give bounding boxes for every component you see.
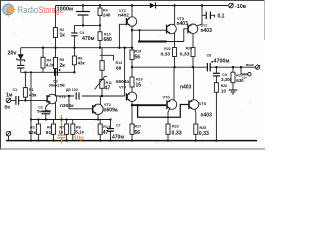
svg-text:R22: R22 <box>164 47 170 51</box>
svg-text:4,3к: 4,3к <box>46 63 55 68</box>
svg-text:0,1: 0,1 <box>218 13 225 19</box>
node R7 top <box>66 118 68 120</box>
svg-text:C7: C7 <box>116 124 121 128</box>
node VT7 rail <box>201 4 203 6</box>
svg-text:56: 56 <box>135 55 141 61</box>
wire y25 link <box>74 24 100 26</box>
label C8 4700m <box>207 54 230 65</box>
node R10 bus <box>99 47 101 49</box>
zener VD1 <box>17 48 25 65</box>
resistor R12 <box>100 48 104 80</box>
svg-text:Дб 100: Дб 100 <box>66 88 78 92</box>
label VT4 p604a <box>116 79 130 90</box>
svg-text:VTб: VTб <box>163 95 171 99</box>
wire bus drop to VT4 base <box>124 48 126 96</box>
watermark icon <box>0 2 17 19</box>
svg-text:47: 47 <box>105 85 111 91</box>
transistor VT3 <box>126 6 136 51</box>
resistor R6 91 <box>52 120 56 141</box>
terminal ground left <box>6 131 11 140</box>
label R8 5.1k <box>76 125 85 134</box>
wire R2 to bus <box>55 38 57 58</box>
svg-text:VT4: VT4 <box>119 86 127 90</box>
label R25 0.33 <box>199 126 209 137</box>
node R9 rail <box>99 4 101 6</box>
label R4 4.3k <box>46 59 55 68</box>
label R3 62k <box>29 125 37 135</box>
node C3 bottom <box>82 24 84 26</box>
label R5 2k <box>60 58 66 69</box>
wire y72 link <box>21 71 55 73</box>
label R16 15 <box>136 77 143 88</box>
capacitor C8 4700m <box>207 61 213 72</box>
node R14 ground <box>99 140 101 142</box>
transistor VT4 <box>126 92 136 105</box>
wire thick y41 <box>138 41 167 43</box>
wire C1 to VT1 base <box>19 99 47 101</box>
wire VT8 base Z <box>138 105 189 118</box>
resistor R3 <box>36 120 40 141</box>
wire top rail -10V <box>56 5 229 7</box>
node R6 ground <box>52 140 54 142</box>
node VT3 emitter y30 <box>131 29 133 31</box>
svg-text:1к: 1к <box>60 33 66 39</box>
wire output bus y68 <box>132 66 207 68</box>
svg-text:Radio: Radio <box>18 5 39 15</box>
resistor R23 0.33 <box>166 112 170 141</box>
capacitor C6 <box>74 92 82 99</box>
node VT2 base branch <box>68 95 70 97</box>
node R16 top <box>131 66 133 68</box>
svg-text:43к: 43к <box>78 61 86 66</box>
svg-text:43к: 43к <box>29 92 37 97</box>
svg-text:10p: 10p <box>74 136 85 142</box>
transistor VT5 <box>167 6 177 48</box>
svg-text:1000м: 1000м <box>57 7 74 13</box>
svg-text:5мx15В: 5мx15В <box>37 110 51 114</box>
svg-text:470м: 470м <box>112 135 124 141</box>
wire output line right <box>210 66 255 68</box>
resistor R5 2k <box>54 58 58 69</box>
transistor VT6 <box>167 67 177 112</box>
resistor R8 5.1k <box>71 120 75 141</box>
capacitor C5 0.1 <box>202 12 215 19</box>
node C7 top <box>109 118 111 120</box>
node x31 ground <box>30 140 32 142</box>
label VT8 p403 <box>199 102 212 118</box>
node VT3 rail <box>131 4 133 6</box>
transistor VT1 <box>47 94 57 104</box>
wire bus y119 <box>31 119 111 121</box>
label C9 3300 <box>221 73 233 82</box>
node bus drop <box>123 47 125 49</box>
svg-text:68: 68 <box>116 66 122 72</box>
node C10 bus <box>60 118 62 120</box>
node VT1 collector y72 <box>54 71 56 73</box>
label R10 680 <box>104 32 113 43</box>
svg-text:C1: C1 <box>13 88 18 92</box>
node VT5 rail <box>173 4 175 6</box>
label R12 43k <box>78 57 86 66</box>
resistor R26 10 <box>214 83 218 141</box>
svg-text:20v: 20v <box>8 51 17 57</box>
label R24 0.33 <box>180 47 192 58</box>
node C9 bus <box>215 66 217 68</box>
node feedback bus <box>240 66 242 68</box>
svg-text:R17: R17 <box>135 125 142 129</box>
svg-text:R1: R1 <box>29 88 34 92</box>
wire stub y55 <box>100 55 114 60</box>
resistor R9 240 <box>98 6 102 26</box>
label feedback tiny <box>242 73 248 80</box>
label R1 43k <box>29 88 37 97</box>
svg-text:R23: R23 <box>172 125 179 129</box>
wire bottom ground rail <box>6 140 257 142</box>
wire thin y41 extension <box>167 41 184 43</box>
svg-text:п403: п403 <box>180 85 192 91</box>
svg-text:R24: R24 <box>186 47 192 51</box>
wire VT7 collector <box>197 6 203 27</box>
svg-text:VT8: VT8 <box>199 102 206 106</box>
node R22 bus <box>173 66 175 68</box>
svg-text:VT2: VT2 <box>104 103 111 107</box>
label R27 630 <box>236 74 244 83</box>
label R22 0.33 <box>161 47 171 57</box>
svg-text:VT3: VT3 <box>119 9 126 13</box>
label C7 470m <box>112 124 124 141</box>
resistor R10 680 <box>98 25 102 47</box>
node R24 bus <box>192 66 194 68</box>
svg-text:0,33: 0,33 <box>161 52 171 58</box>
label C1 1m <box>6 88 17 98</box>
terminal -10V <box>229 3 234 8</box>
wire input to C1 <box>11 99 16 101</box>
node x139 <box>138 29 140 31</box>
label R9 240 <box>103 8 111 17</box>
wire 20v bus y48 <box>21 47 132 49</box>
node C7 ground <box>109 140 111 142</box>
svg-text:R2: R2 <box>60 28 65 32</box>
svg-text:1м: 1м <box>6 92 13 98</box>
svg-text:п403: п403 <box>201 113 213 119</box>
svg-text:62к: 62к <box>29 130 37 135</box>
node bus20v-x52 <box>54 47 56 49</box>
wire VT4 emitter down <box>131 105 133 124</box>
wire VT3 base drop <box>119 24 126 47</box>
svg-text:10: 10 <box>221 88 226 93</box>
svg-text:вых: вых <box>246 63 255 67</box>
border frame <box>0 0 265 150</box>
svg-text:Вх: Вх <box>5 104 11 109</box>
transistor VT8 <box>189 67 199 112</box>
svg-text:R10: R10 <box>104 32 111 36</box>
node VT4 emitter <box>131 104 133 106</box>
potentiometer R11 47 <box>95 77 107 97</box>
label R13 68 <box>116 61 123 72</box>
node base drop bus <box>118 47 120 49</box>
svg-text:15: 15 <box>136 82 142 88</box>
capacitor C10 10p orange highlight <box>58 115 66 144</box>
diode D1 on rail <box>150 3 156 9</box>
label C3 30mx15V <box>49 79 65 87</box>
svg-text:R6: R6 <box>47 125 52 129</box>
label R2 1k <box>60 28 66 39</box>
terminal input Vx <box>6 98 11 103</box>
resistor R4 4.3k <box>41 48 45 73</box>
resistor R14 47 bottom <box>98 120 102 141</box>
node R7 ground <box>66 140 68 142</box>
svg-text:30мx15В: 30мx15В <box>49 84 65 88</box>
wire thick y105 to VT6 base <box>132 104 166 106</box>
svg-text:5,1к: 5,1к <box>76 130 85 135</box>
transistor VT7 <box>188 24 198 48</box>
node R25 ground <box>195 140 197 142</box>
capacitor C7 470m <box>107 120 114 141</box>
svg-text:R25: R25 <box>200 126 207 130</box>
svg-text:R3: R3 <box>30 125 35 129</box>
svg-text:240: 240 <box>103 12 111 17</box>
wire R5 to VT1 collector <box>55 69 57 120</box>
resistor R16 15 <box>130 67 134 92</box>
svg-text:4700м: 4700м <box>214 59 230 65</box>
svg-text:56: 56 <box>135 130 141 136</box>
capacitor C2 <box>41 102 50 119</box>
node R12 bottom <box>73 71 75 73</box>
wire link x139 <box>139 30 141 41</box>
svg-text:C4: C4 <box>80 31 85 35</box>
label VT6 p403 <box>163 85 192 100</box>
capacitor below zener <box>17 65 24 72</box>
node C2 bus <box>45 118 47 120</box>
node VT1 collector / C6 line <box>54 95 56 97</box>
svg-text:0,33: 0,33 <box>180 51 190 57</box>
svg-text:R13: R13 <box>116 61 123 65</box>
terminal feedback <box>241 67 251 76</box>
node R1 input <box>24 99 26 101</box>
node C4 bus <box>73 47 75 49</box>
node R23 ground <box>167 140 169 142</box>
watermark text RadioStorage <box>18 5 64 15</box>
node x31 top <box>30 71 32 73</box>
capacitor C9 <box>213 67 220 83</box>
svg-text:п609а: п609а <box>104 108 118 114</box>
ground symbol R27 <box>229 90 238 94</box>
resistor R15 56 <box>130 50 134 67</box>
label VT2 <box>104 103 118 114</box>
label R6 91 <box>46 125 52 136</box>
wire left column from rail x52 <box>55 6 57 28</box>
svg-text:п604а: п604а <box>116 79 130 85</box>
svg-text:п403: п403 <box>177 21 189 27</box>
resistor R7 <box>65 120 69 141</box>
svg-text:470м: 470м <box>82 36 95 42</box>
node R27 bus <box>232 66 234 68</box>
node VT8 base link <box>136 104 138 106</box>
node R15 bus <box>131 47 133 49</box>
svg-text:R5: R5 <box>60 58 65 62</box>
resistor R2 1k <box>54 28 58 38</box>
label R15 56 <box>135 50 142 61</box>
svg-text:1к: 1к <box>59 130 64 135</box>
resistor R17 56 <box>130 124 134 141</box>
svg-text:2к: 2к <box>60 63 66 69</box>
transistor VT2 <box>93 96 104 120</box>
capacitor C4 470m <box>71 25 77 47</box>
resistor R1 <box>23 72 27 100</box>
label VT7 p403 <box>201 24 213 34</box>
label R11 47 <box>105 81 112 91</box>
resistor R24 0.33 <box>191 48 195 68</box>
label R17 56 <box>135 125 142 136</box>
node x31 bus119 <box>30 118 32 120</box>
label 1000m <box>56 6 77 12</box>
label R26 10 <box>221 84 228 93</box>
label VT5 p403 <box>177 17 189 27</box>
node C3 rail <box>82 4 84 6</box>
svg-text:10к: 10к <box>242 76 247 80</box>
svg-text:п403: п403 <box>201 28 213 34</box>
node VT2 emitter bus <box>97 118 99 120</box>
wire VT7 base drop <box>184 29 188 42</box>
wire VT2 base <box>69 96 93 109</box>
label VT3 p402 <box>118 9 129 19</box>
node R3 top <box>37 118 39 120</box>
node R17 ground <box>131 140 133 142</box>
capacitor C3 1000m top <box>76 6 90 26</box>
resistor R22 0.33 <box>173 48 177 68</box>
svg-text:R15: R15 <box>135 50 142 54</box>
label R23 0.33 <box>172 125 182 137</box>
label R7 1k <box>59 125 65 134</box>
label R14 47 <box>103 125 110 136</box>
node R4 top <box>42 47 44 49</box>
scan noise speckles <box>14 7 251 149</box>
label C4 470m <box>80 31 95 42</box>
node R9 bottom <box>99 24 101 26</box>
svg-text:п402: п402 <box>118 13 129 19</box>
svg-text:п308а: п308а <box>60 103 74 109</box>
node R26 ground <box>215 140 217 142</box>
label C2 5mx15V <box>37 106 51 114</box>
node R3 ground <box>37 140 39 142</box>
svg-text:R16: R16 <box>136 77 143 81</box>
resistor R12 43k feedback <box>72 48 76 73</box>
svg-text:C8: C8 <box>207 54 212 58</box>
resistor R27 630 <box>231 67 235 90</box>
node R1 top <box>24 71 26 73</box>
svg-text:0,33: 0,33 <box>199 131 209 137</box>
terminal output <box>256 65 260 69</box>
wire y30 to VT5 base <box>132 29 167 31</box>
wire x31 down to ground <box>30 72 32 140</box>
capacitor C3 30m15V <box>55 69 61 76</box>
svg-text:91: 91 <box>46 130 52 136</box>
resistor R25 0.33 <box>194 112 198 141</box>
node pot bottom <box>101 95 103 97</box>
label VT1 <box>59 95 74 109</box>
wire C6 line y96 <box>56 95 125 97</box>
svg-text:0,33: 0,33 <box>172 131 182 137</box>
svg-text:680: 680 <box>104 37 113 43</box>
capacitor C1 1m <box>16 96 19 105</box>
